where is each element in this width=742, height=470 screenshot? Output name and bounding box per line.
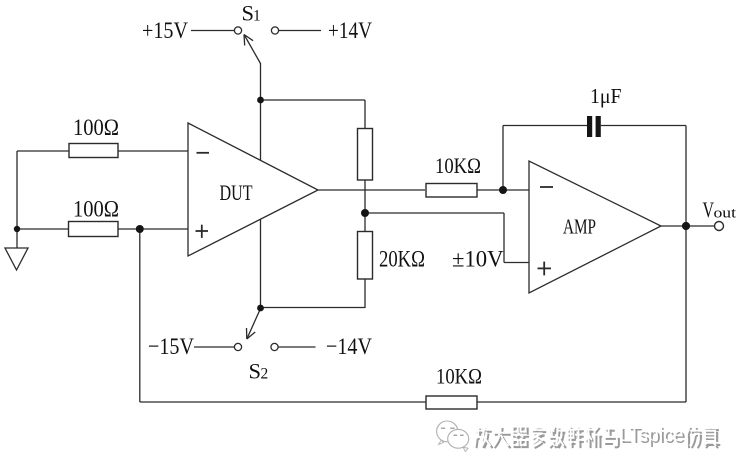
svg-text:out: out: [714, 206, 737, 222]
svg-text:+14V: +14V: [328, 18, 372, 44]
svg-text:±10V: ±10V: [452, 247, 504, 272]
svg-text:DUT: DUT: [220, 180, 253, 205]
svg-text:2: 2: [261, 366, 269, 383]
svg-text:−15V: −15V: [148, 334, 194, 360]
svg-text:100Ω: 100Ω: [73, 197, 119, 223]
svg-text:10KΩ: 10KΩ: [435, 153, 481, 178]
svg-text:AMP: AMP: [563, 215, 596, 239]
svg-text:100Ω: 100Ω: [73, 115, 119, 141]
svg-text:20KΩ: 20KΩ: [379, 247, 425, 272]
svg-text:1: 1: [253, 8, 261, 25]
svg-text:1μF: 1μF: [590, 84, 622, 108]
svg-text:+15V: +15V: [142, 18, 188, 44]
svg-text:10KΩ: 10KΩ: [436, 364, 482, 389]
svg-text:V: V: [703, 197, 715, 222]
svg-text:LTspice: LTspice: [619, 423, 684, 446]
svg-text:S: S: [249, 359, 262, 384]
svg-text:−14V: −14V: [326, 334, 372, 360]
